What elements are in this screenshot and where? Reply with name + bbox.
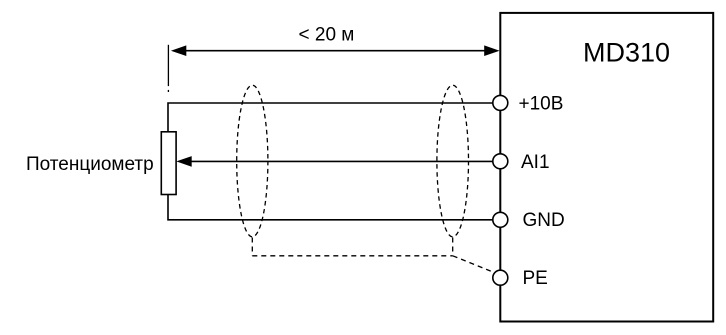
arrowhead wiper bbox=[176, 156, 191, 167]
svg-text:GND: GND bbox=[523, 210, 565, 231]
shield ellipse 2 bbox=[437, 85, 469, 237]
svg-text:Потенциометр: Потенциометр bbox=[26, 154, 154, 175]
svg-text:+10B: +10B bbox=[519, 93, 564, 114]
terminal circle GND bbox=[493, 212, 508, 227]
terminal circle AI1 bbox=[493, 154, 508, 169]
shield drain wire dashed: ellipse2 drop bbox=[452, 238, 454, 256]
inverter box MD310 bbox=[500, 13, 713, 322]
svg-text:AI1: AI1 bbox=[521, 152, 550, 173]
svg-text:PE: PE bbox=[523, 268, 548, 289]
shield drain wire dashed: ellipse1 drop bbox=[251, 238, 253, 256]
dimension line bbox=[185, 50, 486, 52]
shield drain wire dashed: horizontal run bbox=[252, 255, 452, 257]
svg-text:< 20 м: < 20 м bbox=[299, 24, 355, 45]
wire +10B bbox=[168, 103, 493, 132]
terminal circle PE bbox=[493, 270, 508, 285]
wire AI1 (wiper) bbox=[191, 160, 493, 162]
wire GND bbox=[168, 195, 493, 220]
dimension arrowhead right bbox=[484, 45, 499, 56]
shield ellipse 1 bbox=[237, 85, 268, 237]
dimension arrowhead left bbox=[171, 45, 186, 56]
svg-text:MD310: MD310 bbox=[583, 38, 670, 68]
dimension extension dot bbox=[167, 90, 169, 92]
dimension extension line left bbox=[167, 45, 169, 86]
terminal circle +10B bbox=[493, 95, 508, 110]
shield drain wire dashed: diagonal to PE bbox=[453, 256, 494, 273]
potentiometer body bbox=[161, 132, 176, 195]
